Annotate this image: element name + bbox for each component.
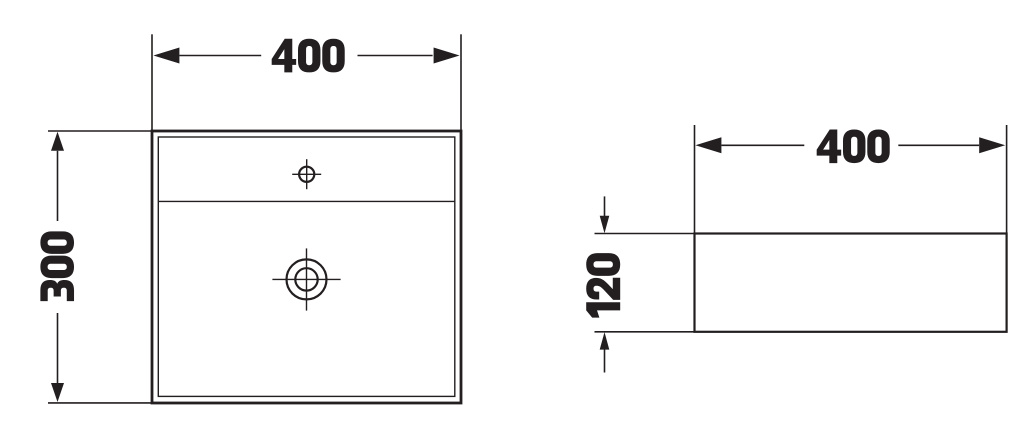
label 400 (side top) bbox=[817, 129, 890, 163]
side 120 arrow tails bbox=[604, 196, 606, 216]
plan 300 bottom arrowhead bbox=[51, 383, 64, 402]
plan 400 right arrowhead bbox=[434, 48, 460, 64]
faucet hole circle bbox=[299, 167, 314, 182]
side 120 top arrowhead (points down) bbox=[600, 216, 610, 234]
top dim extension lines (plan) bbox=[151, 34, 153, 131]
basin inner rect (plan view) bbox=[158, 137, 455, 396]
drain crosshair bbox=[272, 278, 340, 280]
side 400 dim line segments bbox=[721, 144, 804, 146]
left dim extension lines (plan 300) bbox=[48, 130, 152, 132]
basin ledge line bbox=[158, 200, 455, 202]
plan 400 left arrowhead bbox=[153, 48, 179, 64]
label 400 (plan top) bbox=[272, 39, 345, 73]
label 120 (side left, rotated) bbox=[586, 253, 620, 317]
side 400 left arrowhead bbox=[695, 137, 721, 153]
left dim line segments (plan 300) bbox=[57, 151, 59, 221]
drain inner circle bbox=[295, 268, 317, 290]
plan 300 top arrowhead bbox=[51, 132, 64, 151]
faucet hole crosshair bbox=[292, 173, 321, 175]
label 300 (plan left, rotated) bbox=[40, 231, 74, 301]
drain outer circle bbox=[287, 259, 327, 299]
top dim line segments (plan 400) bbox=[179, 55, 261, 57]
side 120 bottom arrowhead (points up) bbox=[600, 332, 610, 350]
side 400 dim extension lines bbox=[694, 125, 696, 234]
basin outer rect (plan view) bbox=[152, 131, 461, 403]
side 120 dim extension lines bbox=[595, 233, 695, 235]
side 400 right arrowhead bbox=[979, 137, 1005, 153]
side view rect bbox=[695, 234, 1007, 332]
